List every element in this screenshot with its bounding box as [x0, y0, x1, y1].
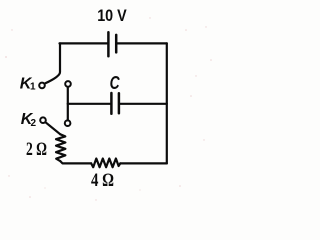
resistor R2 4 ohm (horizontal zigzag): [91, 159, 120, 168]
svg-text:2: 2: [31, 118, 37, 129]
switch K1 (open, two terminal circles): [39, 81, 71, 88]
svg-text:C: C: [110, 73, 121, 93]
capacitor C: [111, 93, 119, 114]
wire bottom left: [60, 161, 91, 163]
resistor R1 2 ohm (vertical zigzag): [56, 134, 65, 161]
scan speckles (paper noise): [5, 17, 212, 200]
battery B1 (10 V cell): [108, 32, 116, 56]
svg-text:4 Ω: 4 Ω: [91, 170, 114, 191]
wire left rail between K1 and K2 contacts: [67, 88, 69, 120]
wire top-right segment: [117, 42, 166, 44]
switch K2 (open, two terminal circles): [40, 117, 70, 126]
wire from top wire down to switch K1 arm: [45, 43, 60, 83]
wire right rail: [166, 43, 168, 163]
wire top-left segment: [60, 42, 108, 44]
wire middle branch right: [120, 103, 167, 105]
wire bottom right: [120, 162, 167, 164]
svg-text:2 Ω: 2 Ω: [26, 139, 47, 160]
wire middle branch left: [68, 103, 111, 105]
switch K2 arm: [45, 122, 60, 134]
svg-text:1: 1: [30, 82, 36, 93]
svg-text:10 V: 10 V: [97, 7, 127, 25]
